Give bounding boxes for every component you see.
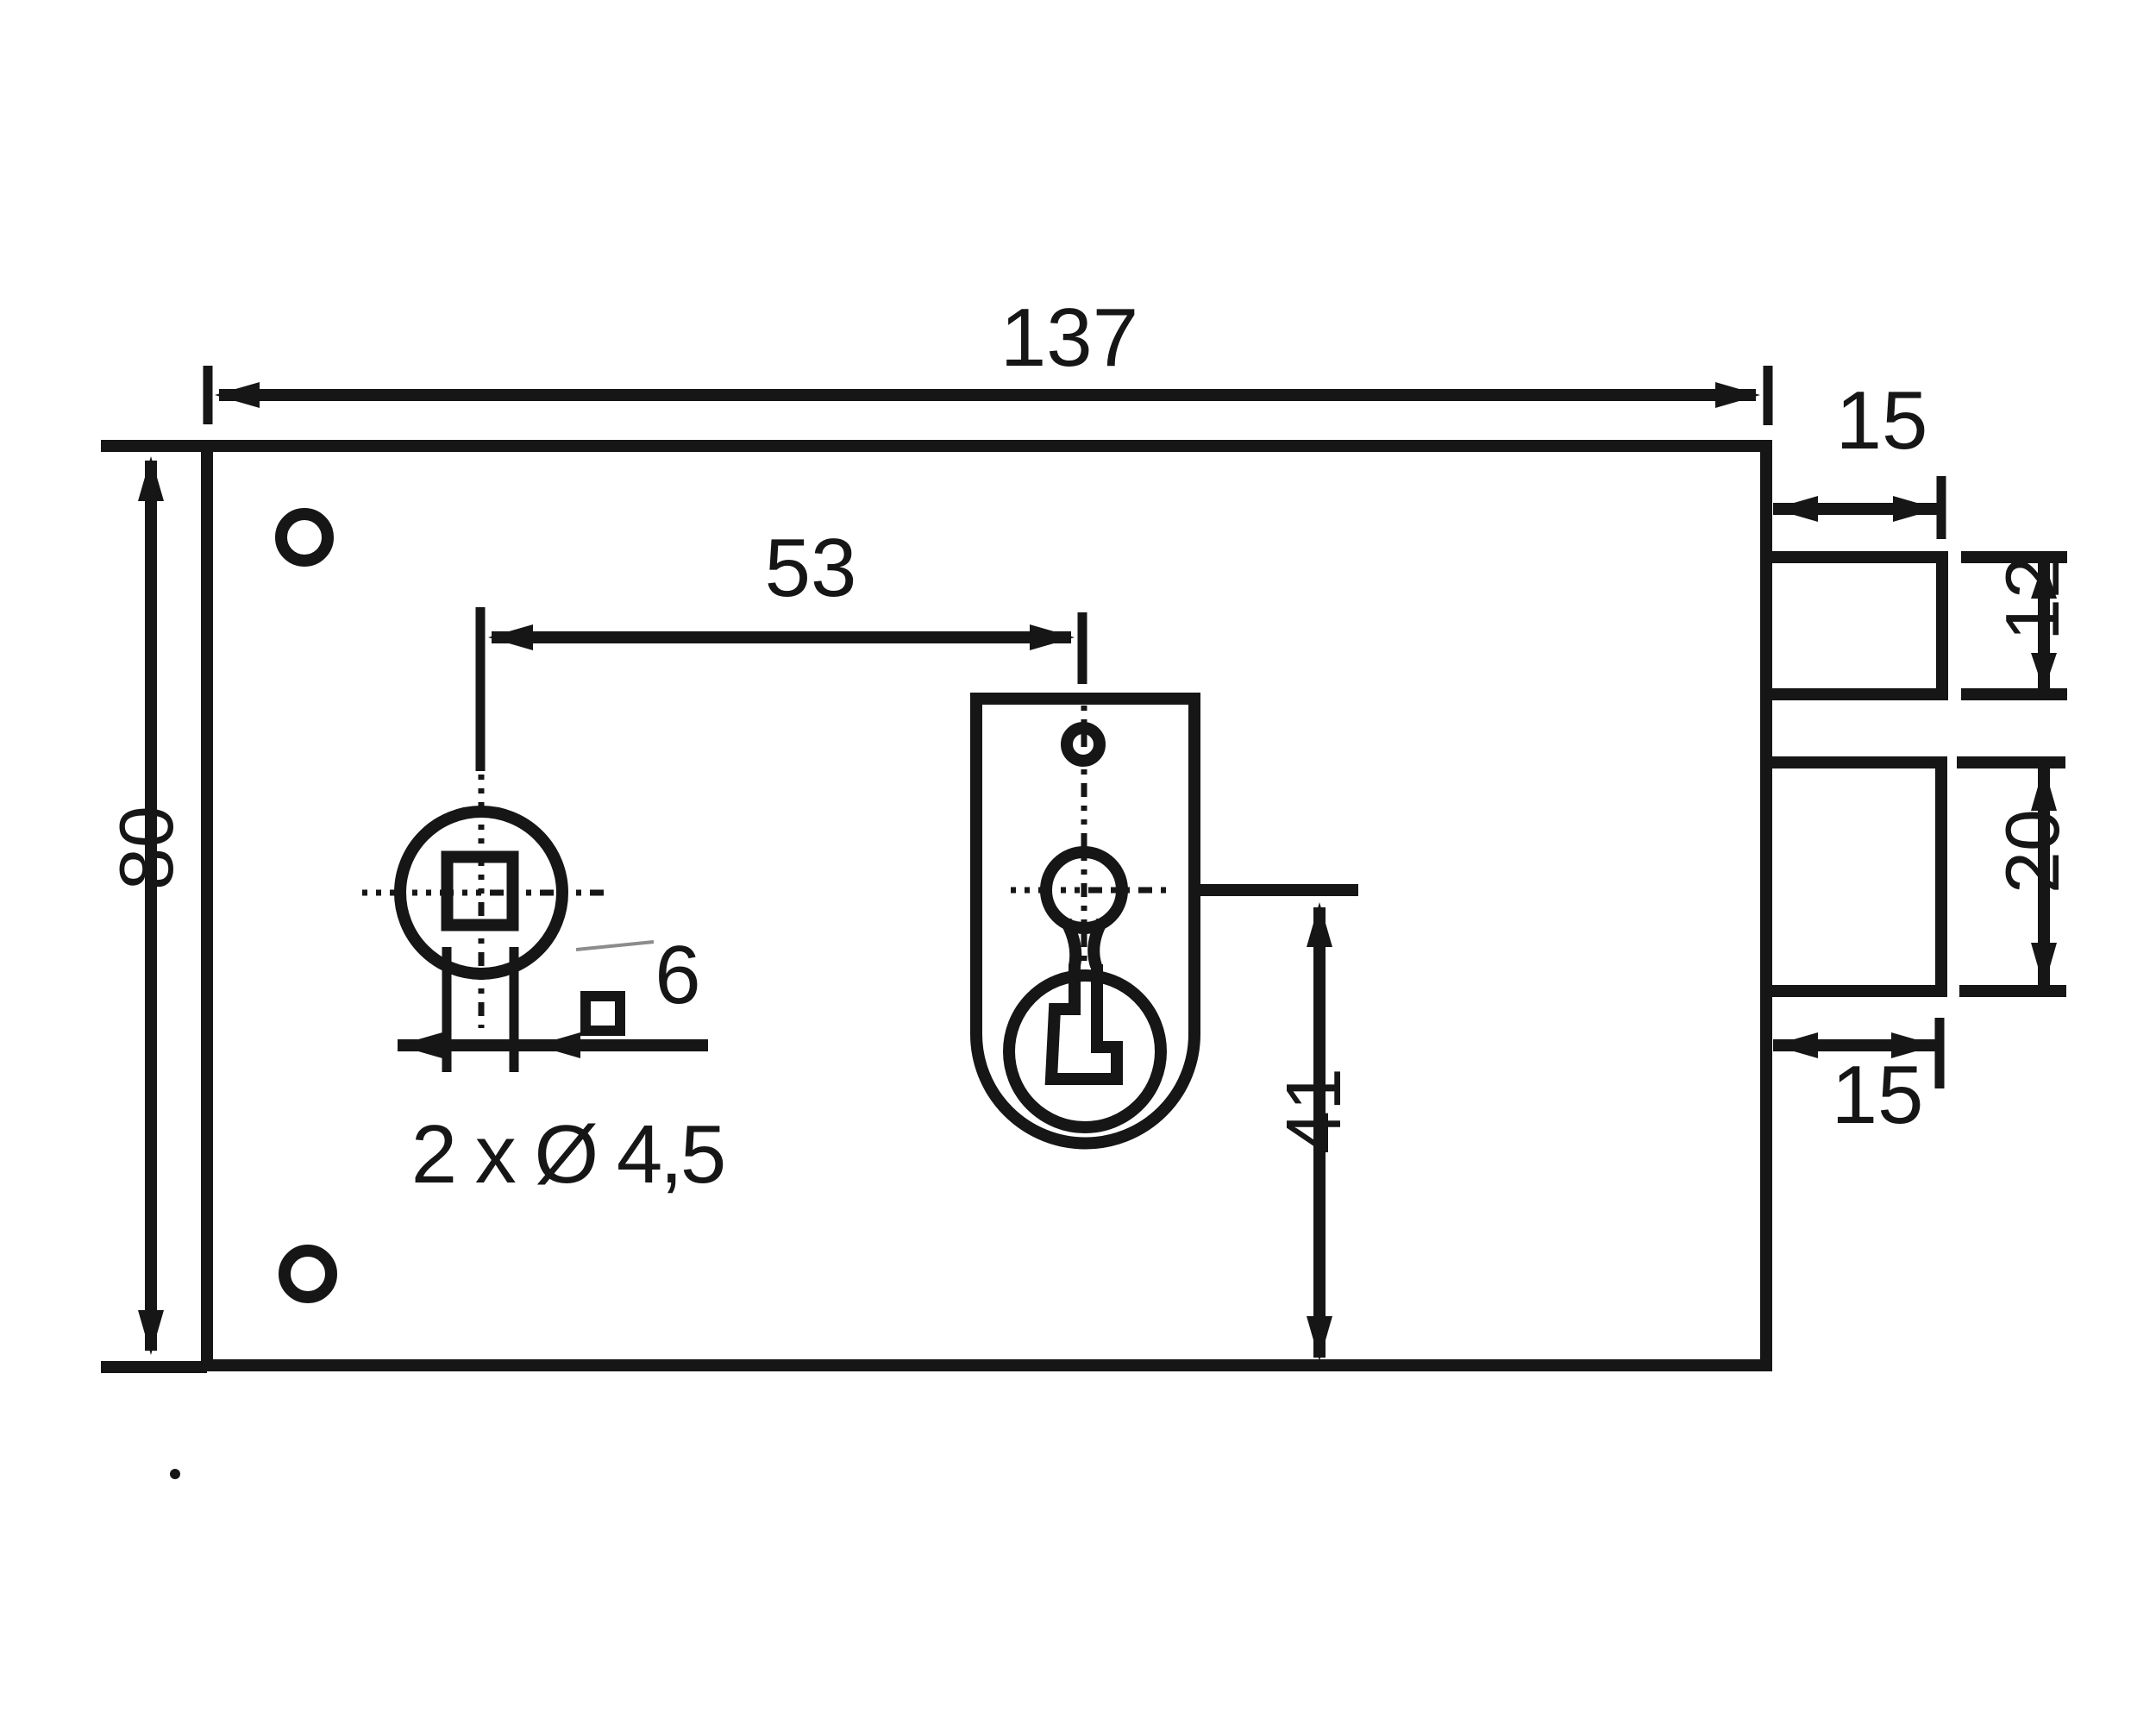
svg-text:41: 41 [1271, 1068, 1357, 1154]
keyhole centerline horizontal dash-dot [1011, 888, 1173, 894]
dim 15 top line [1773, 503, 1938, 515]
arrow hub6 outer-left [398, 1032, 442, 1058]
keyhole neck left [1066, 921, 1075, 966]
hub centerline horizontal dash-dot [362, 890, 604, 896]
svg-text:80: 80 [103, 806, 189, 890]
arrow 15top left [1773, 496, 1818, 522]
keyhole neck right [1094, 921, 1102, 966]
leader line to 6 [576, 942, 654, 950]
arrow 12 bottom [2031, 653, 2057, 691]
arrow hub6 inner-left [536, 1032, 580, 1058]
dim 53 line [492, 631, 1071, 643]
arrow 20 bottom [2031, 943, 2057, 988]
arrow 12 top [2031, 561, 2057, 599]
keyhole centerline vertical dash-dot [1081, 706, 1087, 979]
arrow 80 bottom [138, 1310, 164, 1355]
dim 20 line [2038, 768, 2050, 986]
latch bolt (upper, 12mm) [1771, 557, 1942, 694]
key cylinder circle [1046, 852, 1122, 928]
dim 15 top tick [1937, 476, 1946, 539]
dim 20 extension lines [1957, 756, 2065, 768]
dim 80 line [145, 461, 157, 1351]
dim 12 extension lines [1961, 551, 2067, 563]
svg-text:53: 53 [765, 522, 857, 614]
arrow 15top right [1893, 496, 1938, 522]
stray dot [170, 1469, 180, 1479]
dim 12 line [2038, 562, 2050, 689]
hub square spindle hole 6mm [448, 857, 513, 925]
svg-text:12: 12 [1990, 556, 2075, 641]
svg-text:15: 15 [1836, 374, 1928, 467]
screw hole top-left [281, 514, 328, 561]
arrow 15bot right [1891, 1032, 1936, 1058]
svg-text:2 x Ø 4,5: 2 x Ø 4,5 [411, 1108, 724, 1201]
hub 6mm dimension line [398, 1039, 708, 1051]
keyhole escutcheon plate [976, 699, 1194, 1144]
arrow 53 right [1030, 624, 1075, 650]
hub centerline vertical dash-dot [479, 775, 485, 1028]
deadbolt (lower, 20mm) [1771, 762, 1941, 991]
arrow 20 top [2031, 766, 2057, 811]
arrow 53 left [488, 624, 533, 650]
key bit profile [1051, 964, 1117, 1079]
dim 137 line [219, 389, 1756, 401]
keyhole plate screw circle [1067, 728, 1100, 761]
screw hole bottom-left [285, 1251, 331, 1297]
key bit circle [1009, 975, 1161, 1127]
solid leader from keyhole to 41 dim [1188, 884, 1358, 896]
arrow 80 top [138, 456, 164, 501]
dim 137 ticks [204, 366, 213, 424]
svg-text:15: 15 [1832, 1049, 1924, 1141]
hub 6mm extension lines [442, 947, 452, 1072]
dim 53 right tick [1078, 612, 1087, 684]
small square symbol (6) [586, 996, 620, 1031]
handle hub outer circle [400, 812, 562, 974]
arrow 137 right [1715, 382, 1760, 408]
lock body case outline [101, 446, 1766, 1365]
dim 53 left tick (hub centerline solid part) [476, 607, 486, 771]
bottom-left extension of 80 dim [101, 1361, 207, 1373]
dim 41 line [1313, 907, 1326, 1358]
svg-text:20: 20 [1990, 809, 2075, 894]
svg-text:137: 137 [1000, 292, 1138, 384]
dim 15 bottom line [1773, 1039, 1936, 1051]
arrow 137 left [215, 382, 260, 408]
arrow 15bot left [1773, 1032, 1818, 1058]
arrow 41 bottom [1307, 1316, 1332, 1361]
arrow 41 top [1307, 902, 1332, 947]
svg-text:6: 6 [655, 929, 700, 1021]
dim 15 bottom tick [1935, 1018, 1945, 1088]
